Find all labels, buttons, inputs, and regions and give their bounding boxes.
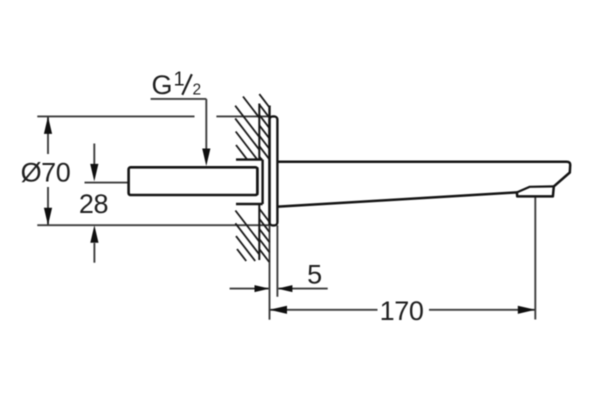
svg-text:Ø70: Ø70 xyxy=(21,158,71,188)
svg-text:170: 170 xyxy=(380,296,424,326)
svg-text:2: 2 xyxy=(193,82,202,99)
svg-text:1: 1 xyxy=(174,69,185,91)
svg-text:5: 5 xyxy=(307,259,322,289)
svg-text:28: 28 xyxy=(79,189,108,219)
svg-text:G: G xyxy=(152,70,173,100)
